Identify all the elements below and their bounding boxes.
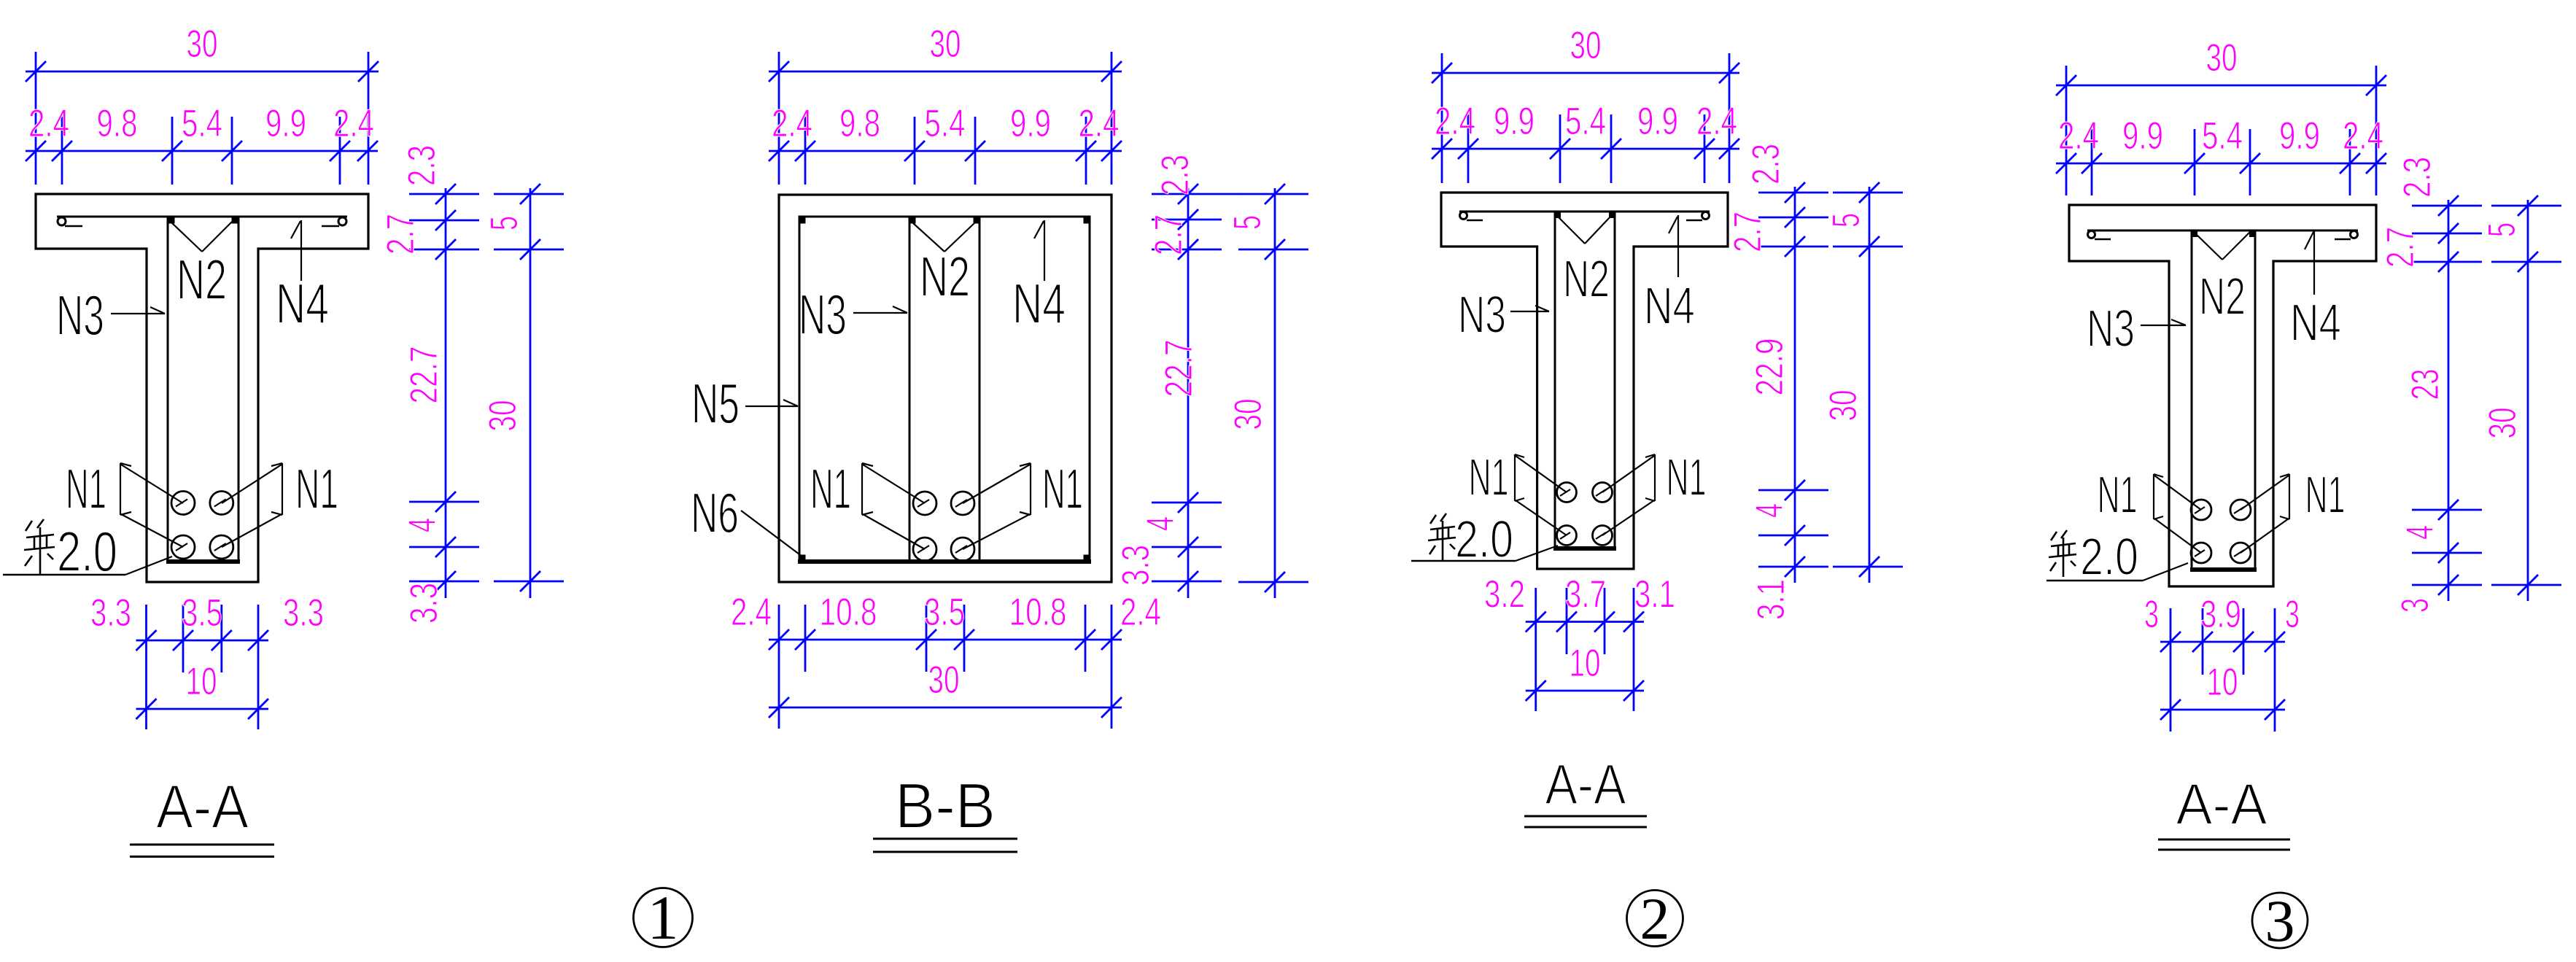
panel 4 chain label 3 bbox=[2394, 598, 2437, 613]
svg-text:3.1: 3.1 bbox=[1634, 573, 1675, 616]
svg-text:2.7: 2.7 bbox=[1147, 214, 1190, 255]
svg-text:10: 10 bbox=[2207, 661, 2238, 704]
svg-text:30: 30 bbox=[187, 23, 218, 66]
panel 2 label N1 right with bracket bbox=[963, 457, 1083, 549]
panel 4 title A-A bbox=[2158, 772, 2290, 850]
svg-text:5.4: 5.4 bbox=[182, 102, 222, 145]
svg-text:4: 4 bbox=[1748, 503, 1791, 518]
panel 1 right chain ticks bbox=[409, 184, 479, 598]
panel 1 chain label 4 bbox=[401, 518, 444, 532]
panel 2 chain label 4 bbox=[1139, 516, 1182, 531]
panel 3 label N2 bbox=[1563, 250, 1610, 309]
svg-text:2.4: 2.4 bbox=[28, 102, 69, 145]
panel 2 label N4 with leader bbox=[1012, 220, 1066, 335]
panel 4 top dimensions 2.4 9.9 5.4 9.9 2.4 bbox=[2056, 115, 2386, 195]
panel 2 stirrup anchor squares bbox=[799, 217, 1090, 562]
svg-text:N1: N1 bbox=[2098, 466, 2138, 524]
svg-text:2.3: 2.3 bbox=[2396, 157, 2439, 198]
panel 1 title A-A bbox=[130, 772, 274, 857]
panel 4 chain label 2.7 bbox=[2379, 227, 2422, 268]
svg-text:2.4: 2.4 bbox=[1435, 100, 1475, 143]
svg-text:2.0: 2.0 bbox=[2080, 528, 2138, 586]
svg-text:3: 3 bbox=[2285, 593, 2300, 636]
svg-text:A-A: A-A bbox=[156, 772, 249, 841]
svg-text:9.9: 9.9 bbox=[2122, 115, 2163, 158]
panel 3 label N4 with leader bbox=[1644, 215, 1695, 335]
svg-text:9.8: 9.8 bbox=[97, 102, 138, 145]
svg-text:10: 10 bbox=[186, 660, 217, 703]
svg-text:2.4: 2.4 bbox=[2343, 115, 2383, 158]
svg-text:30: 30 bbox=[1570, 24, 1602, 67]
svg-text:9.9: 9.9 bbox=[265, 102, 306, 145]
svg-text:N4: N4 bbox=[1644, 277, 1695, 335]
svg-text:2.3: 2.3 bbox=[400, 145, 443, 186]
panel 4 top dimension 30 bbox=[2056, 36, 2386, 195]
svg-text:N1: N1 bbox=[66, 457, 106, 521]
svg-text:3.3: 3.3 bbox=[283, 591, 324, 635]
panel 1 label N1 left with bracket bbox=[66, 457, 183, 547]
svg-text:30: 30 bbox=[2206, 36, 2238, 79]
svg-text:3.5: 3.5 bbox=[924, 591, 965, 634]
panel 3 right chain ticks bbox=[1758, 182, 1828, 583]
svg-text:30: 30 bbox=[928, 659, 960, 702]
svg-text:2.4: 2.4 bbox=[1696, 100, 1737, 143]
svg-text:N3: N3 bbox=[1458, 286, 1506, 344]
panel 3 title A-A bbox=[1524, 752, 1647, 827]
svg-text:4: 4 bbox=[1139, 516, 1182, 531]
panel 1 label N1 right with bracket bbox=[222, 457, 338, 547]
panel 3 top dimension 30 bbox=[1432, 24, 1739, 183]
svg-text:B-B: B-B bbox=[895, 769, 996, 842]
svg-text:2: 2 bbox=[1640, 885, 1670, 952]
svg-text:10.8: 10.8 bbox=[820, 591, 877, 634]
panel 3 chain label 2.7 bbox=[1726, 212, 1769, 252]
svg-text:N2: N2 bbox=[2199, 268, 2246, 326]
svg-text:30: 30 bbox=[2481, 408, 2524, 439]
panel 1 label N2 bbox=[176, 247, 227, 311]
panel 2 right chain ticks bbox=[1152, 184, 1222, 598]
svg-text:30: 30 bbox=[930, 23, 961, 66]
svg-text:2.4: 2.4 bbox=[2058, 115, 2099, 158]
panel 1 T-beam section outline bbox=[36, 194, 368, 582]
panel 4 cover label 净2.0 with leader bbox=[2047, 528, 2188, 586]
svg-text:5: 5 bbox=[483, 216, 526, 230]
svg-text:10.8: 10.8 bbox=[1009, 591, 1067, 634]
panel 3 stirrup N3 legs and closed bottom bbox=[1553, 212, 1616, 548]
panel 2 title B-B bbox=[873, 769, 1017, 852]
panel 4 label N2 bbox=[2199, 268, 2246, 326]
panel 1 stirrup top anchor squares bbox=[168, 217, 238, 224]
panel 3 T-beam section outline bbox=[1441, 193, 1728, 569]
panel 4 chain label 30 bbox=[2481, 408, 2524, 439]
panel 1 bottom dimensions 3.3 3.5 3.3 bbox=[90, 591, 324, 729]
panel 1 N1 rebar circles 2x2 bbox=[171, 492, 233, 559]
svg-text:9.9: 9.9 bbox=[1010, 102, 1051, 145]
panel 4 bottom dimension 10 bbox=[2160, 661, 2285, 720]
svg-text:22.9: 22.9 bbox=[1748, 338, 1791, 396]
panel 1 chain label 2.3 bbox=[400, 145, 443, 186]
svg-text:N4: N4 bbox=[2290, 294, 2341, 352]
section number 3 in circle bbox=[2252, 888, 2308, 954]
svg-text:N1: N1 bbox=[1667, 449, 1707, 507]
svg-text:2.7: 2.7 bbox=[379, 214, 422, 255]
panel 4 V leader to N2 bbox=[2195, 232, 2250, 260]
panel 4 label N1 left with bracket bbox=[2098, 466, 2202, 553]
panel 3 chain label 22.9 bbox=[1748, 338, 1791, 396]
section number 2 in circle bbox=[1627, 885, 1683, 952]
svg-text:30: 30 bbox=[1822, 390, 1865, 422]
panel 1 label N4 with leader bbox=[276, 220, 329, 335]
panel 2 chain label 2.3 bbox=[1154, 155, 1197, 195]
panel 1 V leader to N2 bbox=[172, 222, 232, 252]
svg-text:9.9: 9.9 bbox=[1637, 100, 1678, 143]
svg-text:N1: N1 bbox=[1042, 457, 1083, 521]
svg-text:22.7: 22.7 bbox=[1157, 340, 1200, 397]
panel 2 top dimensions 2.4 9.8 5.4 9.9 2.4 bbox=[769, 102, 1122, 185]
svg-text:3.7: 3.7 bbox=[1565, 573, 1606, 616]
svg-text:2.7: 2.7 bbox=[1726, 212, 1769, 252]
panel 4 chain label 23 bbox=[2404, 369, 2447, 400]
panel 3 chain label 30 bbox=[1822, 390, 1865, 422]
panel 3 chain label 2.3 bbox=[1745, 144, 1788, 185]
svg-text:N1: N1 bbox=[1469, 449, 1509, 507]
svg-text:10: 10 bbox=[1570, 642, 1601, 685]
panel 3 flange rebar line with end hooks bbox=[1459, 212, 1710, 220]
svg-text:30: 30 bbox=[481, 400, 524, 432]
panel 2 rectangular section outline bbox=[779, 195, 1112, 582]
panel 1 top dimension 30 bbox=[26, 23, 379, 185]
svg-text:N1: N1 bbox=[2305, 466, 2346, 524]
svg-text:5: 5 bbox=[2480, 222, 2523, 237]
panel 3 label N1 left with bracket bbox=[1469, 449, 1567, 535]
panel 2 chain label 5 bbox=[1226, 215, 1269, 230]
panel 3 outer chain ticks bbox=[1833, 182, 1903, 583]
panel 4 T-beam section outline bbox=[2069, 205, 2376, 586]
panel 2 label N1 left with bracket bbox=[810, 457, 925, 549]
svg-text:3.5: 3.5 bbox=[182, 591, 222, 635]
panel 2 chain label 3.3 bbox=[1114, 545, 1157, 586]
svg-text:3: 3 bbox=[2394, 598, 2437, 613]
section number 1 in circle bbox=[634, 883, 693, 953]
svg-text:N2: N2 bbox=[1563, 250, 1610, 309]
svg-text:5.4: 5.4 bbox=[1565, 100, 1606, 143]
svg-text:9.9: 9.9 bbox=[1494, 100, 1535, 143]
svg-text:3.2: 3.2 bbox=[1484, 573, 1525, 616]
panel 2 bottom dimension 30 bbox=[769, 659, 1122, 718]
panel 1 cover label 净2.0 with leader bbox=[3, 519, 172, 583]
panel 3 label N1 right with bracket bbox=[1602, 449, 1707, 535]
panel 1 chain label 5 bbox=[483, 216, 526, 230]
panel 4 stirrup N3 legs and closed bottom bbox=[2190, 230, 2257, 570]
svg-text:A-A: A-A bbox=[1545, 752, 1626, 816]
panel 2 top dimension 30 bbox=[769, 23, 1122, 185]
svg-text:5.4: 5.4 bbox=[925, 102, 966, 145]
svg-text:N2: N2 bbox=[176, 247, 227, 311]
panel 1 outer chain ticks bbox=[494, 184, 564, 598]
panel 4 label N4 with leader bbox=[2290, 231, 2341, 352]
svg-text:3.1: 3.1 bbox=[1750, 579, 1793, 620]
svg-text:3: 3 bbox=[2144, 593, 2159, 636]
svg-text:N3: N3 bbox=[56, 283, 104, 347]
svg-text:N4: N4 bbox=[1012, 271, 1066, 335]
panel 1 top dimensions 2.4 9.8 5.4 9.9 2.4 bbox=[26, 102, 378, 185]
panel 2 outer chain ticks bbox=[1238, 184, 1308, 598]
panel 4 N1 rebar circles 2x2 bbox=[2191, 500, 2251, 563]
panel 2 flange-top shared extension line bbox=[1222, 193, 1239, 195]
svg-text:2.4: 2.4 bbox=[1120, 591, 1161, 634]
panel 4 label N1 right with bracket bbox=[2241, 466, 2346, 553]
svg-text:5: 5 bbox=[1226, 215, 1269, 230]
panel 2 chain label 30 bbox=[1227, 399, 1270, 430]
svg-text:23: 23 bbox=[2404, 369, 2447, 400]
svg-text:9.8: 9.8 bbox=[839, 102, 880, 145]
svg-text:3.3: 3.3 bbox=[90, 591, 131, 635]
svg-text:A-A: A-A bbox=[2176, 772, 2268, 837]
panel 2 label N2 bbox=[920, 244, 970, 309]
svg-text:3.3: 3.3 bbox=[403, 583, 446, 624]
panel 2 bottom dimensions 2.4 10.8 3.5 10.8 2.4 bbox=[731, 591, 1161, 729]
svg-text:N4: N4 bbox=[276, 271, 329, 335]
svg-text:30: 30 bbox=[1227, 399, 1270, 430]
svg-text:2.4: 2.4 bbox=[731, 591, 772, 634]
panel 3 bottom dimension 10 bbox=[1526, 642, 1644, 701]
svg-text:5: 5 bbox=[1825, 213, 1868, 228]
panel 2 N1 rebar circles 2x2 bbox=[913, 492, 974, 561]
svg-text:2.4: 2.4 bbox=[1079, 102, 1120, 145]
panel 3 chain label 3.1 bbox=[1750, 579, 1793, 620]
panel 2 chain label 2.7 bbox=[1147, 214, 1190, 255]
panel 3 cover label 净2.0 with leader bbox=[1411, 511, 1558, 569]
panel 3 N1 rebar circles 2x2 bbox=[1557, 483, 1613, 546]
panel 1 chain label 22.7 bbox=[403, 346, 446, 404]
svg-text:3.9: 3.9 bbox=[2200, 593, 2241, 636]
panel 1 chain label 30 bbox=[481, 400, 524, 432]
svg-text:4: 4 bbox=[2399, 525, 2442, 540]
svg-text:2.4: 2.4 bbox=[772, 102, 812, 145]
panel 3 stirrup top anchor squares bbox=[1555, 212, 1615, 218]
panel 1 flange rebar line with end hooks bbox=[57, 217, 347, 226]
svg-text:1: 1 bbox=[648, 883, 679, 953]
svg-text:2.7: 2.7 bbox=[2379, 227, 2422, 268]
panel 3 chain label 5 bbox=[1825, 213, 1868, 228]
panel 3 V leader to N2 bbox=[1559, 216, 1611, 244]
panel 4 chain label 5 bbox=[2480, 222, 2523, 237]
panel 3 label N3 with leader bbox=[1458, 286, 1549, 344]
panel 4 label N3 with leader bbox=[2087, 300, 2186, 358]
svg-text:5.4: 5.4 bbox=[2202, 115, 2243, 158]
panel 4 outer chain ticks bbox=[2491, 195, 2561, 601]
panel 3 bottom dimensions 3.2 3.7 3.1 bbox=[1484, 573, 1675, 712]
panel 2 inner stirrup N3 legs bbox=[909, 217, 979, 562]
svg-text:3.3: 3.3 bbox=[1114, 545, 1157, 586]
svg-text:N2: N2 bbox=[920, 244, 970, 309]
svg-text:N3: N3 bbox=[2087, 300, 2135, 358]
panel 1 chain label 2.7 bbox=[379, 214, 422, 255]
panel 3 top dimensions 2.4 9.9 5.4 9.9 2.4 bbox=[1432, 100, 1739, 183]
panel 2 V leader to N2 bbox=[913, 222, 976, 252]
panel 2 outer stirrup N5 rectangle bbox=[798, 217, 1091, 562]
panel 4 right chain ticks bbox=[2412, 195, 2482, 601]
panel 1 label N3 with leader bbox=[56, 283, 165, 347]
svg-text:3: 3 bbox=[2265, 888, 2295, 954]
svg-text:2.4: 2.4 bbox=[333, 102, 374, 145]
panel 2 label N5 with leader bbox=[691, 371, 798, 435]
panel 4 chain label 2.3 bbox=[2396, 157, 2439, 198]
panel 4 flange rebar line with end hooks bbox=[2087, 230, 2358, 239]
svg-text:2.3: 2.3 bbox=[1745, 144, 1788, 185]
svg-text:2.3: 2.3 bbox=[1154, 155, 1197, 195]
panel 2 chain label 22.7 bbox=[1157, 340, 1200, 397]
panel 4 bottom dimensions 3 3.9 3 bbox=[2144, 593, 2300, 732]
svg-text:N1: N1 bbox=[295, 457, 338, 521]
panel 1 bottom dimension 10 bbox=[136, 660, 269, 719]
svg-text:4: 4 bbox=[401, 518, 444, 532]
svg-text:9.9: 9.9 bbox=[2279, 115, 2320, 158]
svg-text:N5: N5 bbox=[691, 371, 740, 435]
svg-text:22.7: 22.7 bbox=[403, 346, 446, 404]
panel 2 label N6 with leader bbox=[691, 481, 802, 556]
panel 3 chain label 4 bbox=[1748, 503, 1791, 518]
svg-text:N6: N6 bbox=[691, 481, 739, 545]
svg-text:N3: N3 bbox=[799, 282, 847, 346]
panel 1 stirrup N3 legs and closed bottom bbox=[166, 217, 240, 562]
svg-text:N1: N1 bbox=[810, 457, 851, 521]
panel 1 chain label 3.3 bbox=[403, 583, 446, 624]
panel 4 stirrup top anchor squares bbox=[2192, 231, 2255, 237]
panel 2 label N3 with leader bbox=[799, 282, 907, 346]
panel 4 chain label 4 bbox=[2399, 525, 2442, 540]
